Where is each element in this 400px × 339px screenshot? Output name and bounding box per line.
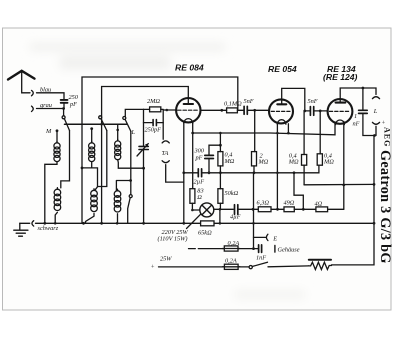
chassis bar Gehäuse xyxy=(274,245,276,252)
svg-text:AEG: AEG xyxy=(383,127,392,147)
node xyxy=(287,132,290,135)
node xyxy=(116,222,119,225)
resistor 65kΩ in bus xyxy=(201,221,214,226)
wire M to coil xyxy=(56,131,58,143)
capacitor 300pF xyxy=(205,155,214,158)
resistor 2MΩ grid leak xyxy=(150,107,161,112)
svg-text:1nF: 1nF xyxy=(256,255,266,262)
svg-text:5nF: 5nF xyxy=(244,98,254,105)
node xyxy=(220,109,223,112)
wire RE084 cathode left leg xyxy=(183,123,185,224)
capacitor 2µF xyxy=(198,169,201,177)
svg-text:6,3Ω: 6,3Ω xyxy=(257,200,270,207)
capacitor 1nF mains xyxy=(254,248,259,250)
wire bus1 top (tuned grid feed) xyxy=(82,77,238,168)
wire col2 top xyxy=(91,129,93,143)
svg-text:250: 250 xyxy=(69,94,79,101)
node xyxy=(276,208,279,211)
pointer lamp label xyxy=(187,214,201,229)
wire bus2 top (anode to feedback) xyxy=(102,87,189,105)
wire coil L1b bottom to bus xyxy=(55,212,57,223)
svg-text:RE 054: RE 054 xyxy=(268,64,297,74)
wire RE084 grid left xyxy=(163,109,176,111)
wire bus after 65k xyxy=(214,209,220,223)
capacitor 250pF grid xyxy=(153,120,156,126)
coil L3b xyxy=(117,189,119,191)
wire RE084 cathode right leg xyxy=(192,123,194,189)
filament RE054 xyxy=(277,120,286,125)
svg-text:MΩ: MΩ xyxy=(288,159,299,166)
svg-text:0,2A: 0,2A xyxy=(228,240,240,247)
wire L3b bottom xyxy=(117,214,119,224)
node riser xyxy=(219,208,222,211)
svg-text:L: L xyxy=(373,108,378,115)
resistor 0,1MΩ xyxy=(227,108,238,113)
antenna xyxy=(8,71,35,80)
coil L1a xyxy=(56,141,58,143)
node xyxy=(276,172,279,175)
node xyxy=(219,144,222,147)
svg-text:Geatron 3 G/3 bG: Geatron 3 G/3 bG xyxy=(377,150,393,264)
resistor 2MΩ detector load xyxy=(252,152,257,166)
node xyxy=(252,208,255,211)
jack TA bottom xyxy=(162,161,169,163)
coil L2b xyxy=(93,189,95,191)
svg-text:MΩ: MΩ xyxy=(258,159,269,166)
wire minus input row xyxy=(189,248,225,250)
filament RE084 xyxy=(184,119,193,124)
wire col3 top xyxy=(117,124,119,141)
wire RE054 anode riser xyxy=(282,88,305,111)
wire grid node down to TA xyxy=(162,123,164,140)
wire switch1 blade down xyxy=(61,131,70,188)
svg-text:65kΩ: 65kΩ xyxy=(198,230,212,237)
svg-text:2µF: 2µF xyxy=(194,179,205,186)
node xyxy=(373,222,376,225)
svg-text:RE 084: RE 084 xyxy=(175,63,204,73)
svg-text:25W: 25W xyxy=(160,256,172,263)
node xyxy=(319,110,322,113)
node grau junction xyxy=(62,107,65,110)
svg-text:E: E xyxy=(272,235,277,242)
node xyxy=(373,134,376,137)
switch S2 xyxy=(99,116,102,119)
wire grid corner to switch L xyxy=(125,109,143,116)
wire RE134 right leg xyxy=(343,122,345,210)
switch mains xyxy=(249,266,252,269)
jack schwarz xyxy=(32,221,34,226)
wire RE134 anode up xyxy=(340,88,376,103)
svg-text:MΩ: MΩ xyxy=(323,159,334,166)
svg-text:schwarz: schwarz xyxy=(38,225,59,232)
wire switch2 blade down xyxy=(98,131,107,187)
wire anode load rail xyxy=(304,183,374,185)
node xyxy=(342,184,345,187)
ground xyxy=(19,223,21,229)
node xyxy=(142,222,145,225)
svg-text:250pF: 250pF xyxy=(145,127,162,134)
svg-text:blau: blau xyxy=(40,87,51,94)
node xyxy=(302,208,305,211)
capacitor 250pF antenna xyxy=(61,100,68,103)
node xyxy=(303,110,306,113)
wire L2b bottom to bus xyxy=(86,213,95,223)
resistor 83Ω xyxy=(190,189,195,204)
wire RE054 cathode legs xyxy=(276,124,278,210)
capacitor 5nF coupling 1 xyxy=(244,106,247,114)
node xyxy=(373,183,376,186)
svg-text:2MΩ: 2MΩ xyxy=(147,98,160,105)
jack E xyxy=(254,236,267,238)
barretter resistor xyxy=(309,259,331,261)
node tuning xyxy=(142,167,145,170)
wire L2a bottom to tap row xyxy=(91,162,93,168)
svg-text:pF: pF xyxy=(69,101,77,108)
wire minus rail x253 xyxy=(253,173,255,249)
svg-text:Gehäuse: Gehäuse xyxy=(278,247,300,254)
capacitor 4µF xyxy=(235,205,238,215)
switch S3 (L) xyxy=(123,117,126,120)
jack grau xyxy=(32,106,34,111)
fuse F2 0,2A xyxy=(224,264,238,269)
wire ground to jack xyxy=(20,222,30,224)
svg-text:0,2A: 0,2A xyxy=(225,258,237,265)
wire tuning node down to bus xyxy=(143,168,145,223)
node xyxy=(182,222,185,225)
jack blau xyxy=(32,90,34,95)
resistor 6,3Ω xyxy=(258,207,271,212)
wire L3a bottom to tuning node xyxy=(118,160,144,169)
node xyxy=(252,247,255,250)
svg-text:0,1MΩ: 0,1MΩ xyxy=(224,101,242,108)
node xyxy=(182,171,185,174)
wire filament bus xyxy=(193,122,335,135)
svg-text:grau: grau xyxy=(40,102,52,109)
node col2 terminal xyxy=(90,127,93,130)
wire RC right node xyxy=(157,110,163,123)
antenna mast wire xyxy=(22,71,30,93)
jack TA top xyxy=(162,141,169,143)
wire feedback bus1 vertical xyxy=(81,168,83,223)
svg-text:+: + xyxy=(381,119,385,126)
svg-text:1: 1 xyxy=(354,113,357,120)
jack L top xyxy=(372,97,379,99)
capacitor 5nF coupling 2 xyxy=(305,110,310,112)
node xyxy=(253,171,256,174)
wire coil L1a bottom to left branch xyxy=(45,162,57,224)
svg-text:MΩ: MΩ xyxy=(224,158,235,165)
switch S1 xyxy=(62,116,65,119)
wire switch3 blade down xyxy=(130,132,132,195)
svg-text:+: + xyxy=(151,264,155,271)
node xyxy=(219,132,222,135)
wire heater tap step xyxy=(294,173,303,210)
node xyxy=(253,109,256,112)
resistor 50kΩ xyxy=(218,189,223,204)
node xyxy=(82,222,85,225)
wire L3b top tap xyxy=(116,181,130,191)
svg-text:49Ω: 49Ω xyxy=(284,200,295,207)
svg-text:50kΩ: 50kΩ xyxy=(225,190,239,197)
wire L bottom down xyxy=(375,126,377,135)
lamp dial xyxy=(200,203,214,217)
wire bias bus 2µF row xyxy=(184,172,198,174)
wire cathode chain x220 xyxy=(219,133,221,145)
variable capacitor tuning xyxy=(143,123,145,146)
node feedback tap xyxy=(81,167,84,170)
coil L3a xyxy=(117,139,119,141)
wire 4µF right xyxy=(238,208,253,210)
svg-text:nF: nF xyxy=(353,121,360,128)
switch gang bus xyxy=(65,123,127,125)
triode RE084 xyxy=(176,98,200,122)
capacitor 1nF output xyxy=(362,88,364,110)
node xyxy=(208,171,211,174)
svg-text:300: 300 xyxy=(194,148,205,155)
wire main bottom bus schwarz xyxy=(36,222,201,224)
triode RE054 xyxy=(269,99,293,123)
node xyxy=(276,132,279,135)
coil L2a xyxy=(91,141,93,143)
node col3 top xyxy=(116,129,119,132)
svg-text:5nF: 5nF xyxy=(308,98,318,105)
svg-text:TA: TA xyxy=(162,150,169,157)
wire right HT rail xyxy=(332,136,375,265)
switch S4 xyxy=(129,195,132,198)
node filament bus start xyxy=(191,132,194,135)
wire grau xyxy=(37,108,64,110)
node xyxy=(166,109,169,112)
node xyxy=(54,222,57,225)
triode RE134 xyxy=(328,99,353,124)
filament RE134 xyxy=(336,120,345,125)
wire 83 to lamp xyxy=(192,203,200,210)
wire grid line RE084 to coupling xyxy=(200,109,222,111)
svg-text:4µF: 4µF xyxy=(230,214,241,221)
wire lamp right xyxy=(214,208,234,210)
node bus left xyxy=(43,222,46,225)
resistor 4Ω xyxy=(316,207,328,212)
resistor 0,4MΩ anode load RE054 xyxy=(302,155,307,166)
wire tap row xyxy=(82,168,98,190)
node M terminal xyxy=(56,129,59,132)
svg-text:pF: pF xyxy=(195,155,203,162)
wire anode feedback bus2 vertical xyxy=(101,87,103,224)
coil L1b xyxy=(56,188,58,190)
wire to 300pF xyxy=(209,145,220,155)
svg-text:(110V 15W): (110V 15W) xyxy=(158,236,188,243)
jack L bottom xyxy=(372,122,379,124)
wire blau to 250pF xyxy=(37,93,65,100)
node xyxy=(100,123,103,126)
fuse F1 0,2A xyxy=(224,246,238,251)
scan streaks (decorative) xyxy=(30,44,225,50)
resistor 0,4MΩ cathode xyxy=(218,152,223,166)
node xyxy=(219,171,222,174)
svg-text:4Ω: 4Ω xyxy=(315,201,323,208)
wire to switch 1 xyxy=(63,109,65,116)
wire bus to right rail xyxy=(220,222,374,224)
resistor 0,4MΩ grid leak RE134 xyxy=(317,154,322,165)
wire TA bottom to cathode leg xyxy=(166,165,184,182)
node xyxy=(129,179,132,182)
svg-text:M: M xyxy=(45,128,52,135)
node riser bus xyxy=(219,222,222,225)
resistor 49Ω xyxy=(284,207,294,212)
svg-text:(RE 124): (RE 124) xyxy=(323,72,358,82)
node xyxy=(100,222,103,225)
node xyxy=(362,87,365,90)
node xyxy=(293,171,296,174)
svg-text:Ω: Ω xyxy=(197,194,202,201)
wire plus input row xyxy=(159,266,225,268)
svg-text:L: L xyxy=(131,129,136,136)
node lamp left xyxy=(191,209,194,212)
node xyxy=(252,222,255,225)
wire RC left node down xyxy=(144,109,153,122)
